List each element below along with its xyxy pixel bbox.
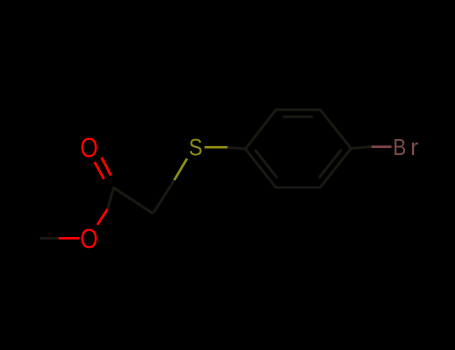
benzene ring hexagon (faint): [245, 110, 351, 188]
bond ring-Br carbon half (faint): [351, 147, 371, 149]
bond S-C2 sulfur half (yellow): [174, 159, 187, 180]
bond O2-C1 carbon half (faint): [108, 187, 114, 210]
double bond C1=O1 line A (red): [95, 162, 105, 179]
bond S-ring carbon half (faint): [228, 147, 246, 149]
svg-text:O: O: [80, 224, 98, 255]
bond O2-methyl oxygen half (red): [59, 237, 80, 240]
bond C2-S carbon half (faint): [153, 180, 174, 214]
bond S-ring sulfur half (yellow): [205, 146, 228, 149]
svg-text:S: S: [189, 134, 203, 161]
bond C(methyl)-O2 carbon half (faint): [40, 237, 59, 240]
bond O2-C1 oxygen half (red): [97, 209, 107, 225]
benzene inner aromatic line lower-left (faint): [255, 150, 278, 179]
benzene inner aromatic line top (faint): [283, 116, 313, 119]
svg-text:O: O: [80, 133, 98, 164]
bond ring-Br bromine half (dark red): [372, 145, 392, 148]
svg-text:r: r: [410, 135, 418, 161]
double bond C1=O1 line B (red): [102, 158, 112, 176]
svg-text:B: B: [393, 133, 406, 160]
benzene inner aromatic line lower-right (faint): [319, 149, 342, 178]
bond C1-C2 (faint): [113, 187, 154, 214]
